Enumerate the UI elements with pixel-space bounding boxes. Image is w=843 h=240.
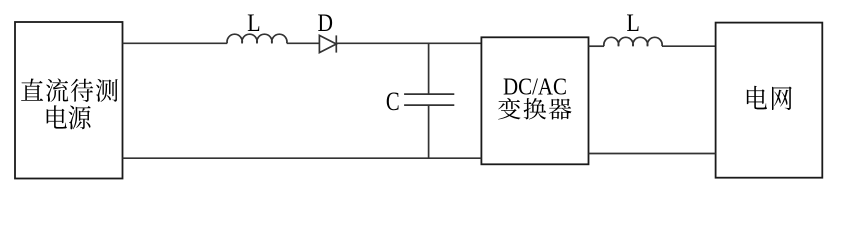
inductor L2 [604,37,662,46]
block: DC/AC converter (DC/AC 变换器) [481,37,588,164]
diode D [319,35,336,52]
label L (inductor L2) [626,10,640,37]
svg-text:D: D [318,10,334,37]
svg-text:C: C [386,87,400,116]
wire: DC/AC converter to grid block (bottom return) [589,153,716,155]
block: power grid (电网) [716,23,823,178]
wire: left box to inductor L1 (top) [123,42,228,44]
svg-text:DC/AC: DC/AC [503,74,567,100]
svg-text:L: L [247,10,261,37]
wire: left box to DC/AC converter (bottom return), node with capacitor C [123,157,482,159]
label L (inductor L1) [247,10,261,37]
capacitor C [404,43,454,158]
wire: diode D to DC/AC converter (top), node with capacitor C [336,42,481,44]
label D (diode) [318,10,334,37]
wire: DC/AC converter to inductor L2 (top) [589,45,605,47]
block: DC source under test (直流待测电源) [15,22,123,179]
wire: inductor L2 to grid block (top) [662,45,716,47]
wire: inductor L1 to diode D [287,42,320,44]
inductor L1 [227,34,287,43]
label C (capacitor) [386,87,400,116]
svg-text:L: L [626,10,640,37]
